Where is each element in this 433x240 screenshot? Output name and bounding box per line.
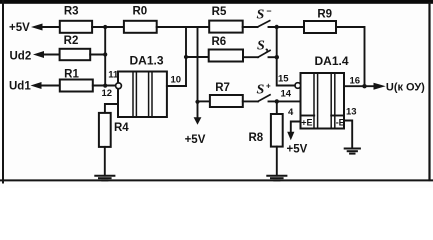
svg-text:+5V: +5V — [185, 134, 206, 146]
resistor R7 — [210, 82, 243, 107]
resistor R6 — [209, 36, 243, 62]
wire S bus to pin 15 — [277, 27, 296, 86]
svg-text:11: 11 — [108, 69, 119, 80]
svg-text:R0: R0 — [132, 6, 147, 18]
junction dot A3 — [103, 84, 107, 88]
ground under R8 — [267, 176, 286, 181]
pin 15 bubble — [295, 83, 301, 89]
wire pin 4 to +5V arrow — [291, 122, 301, 133]
wire pin 10 — [167, 85, 186, 87]
wire switch S1 to bus — [269, 56, 277, 58]
junction dot B1 — [184, 55, 188, 59]
wire R7 to switch — [243, 100, 258, 102]
wire middle vertical v2 — [197, 27, 199, 118]
wire to R8 — [276, 101, 278, 114]
power arrow +5V middle — [185, 117, 206, 146]
pin 11 bubble — [116, 83, 122, 89]
resistor R9 — [304, 8, 336, 33]
frame — [0, 0, 433, 4]
svg-text:DA1.3: DA1.3 — [129, 54, 163, 68]
wire Ud2 to R2 — [43, 54, 60, 56]
svg-text:4: 4 — [288, 107, 294, 118]
svg-text:12: 12 — [102, 88, 113, 99]
wire switch S- to R9 — [269, 26, 305, 28]
wire middle vertical v1 — [185, 27, 187, 86]
junction dot C2 — [275, 55, 279, 59]
svg-text:U(к ОУ): U(к ОУ) — [386, 82, 425, 94]
wire pin 12 — [105, 104, 118, 113]
svg-text:-E: -E — [336, 118, 345, 128]
svg-text:+5V: +5V — [287, 144, 308, 156]
svg-text:R9: R9 — [317, 8, 332, 20]
wire R4 to ground — [104, 147, 106, 176]
node Ud2 input — [10, 50, 45, 62]
svg-text:13: 13 — [346, 106, 357, 117]
switch S- label — [257, 6, 272, 23]
wire R9 to output node — [336, 27, 365, 86]
wire to R7 — [198, 100, 211, 102]
ground under R4 — [95, 176, 114, 181]
svg-text:S: S — [257, 7, 265, 22]
svg-text:Ud1: Ud1 — [9, 81, 31, 93]
svg-text:10: 10 — [171, 75, 182, 86]
wire +5V to R3 — [43, 26, 60, 28]
svg-text:16: 16 — [350, 75, 361, 86]
svg-text:+E: +E — [301, 118, 312, 128]
svg-text:R6: R6 — [211, 36, 226, 48]
wire pin 13 to ground — [344, 121, 352, 149]
wire R2 to bus — [90, 54, 105, 56]
resistor R5 — [209, 6, 243, 33]
ground under pin 13 — [345, 149, 360, 154]
svg-text:+: + — [266, 82, 271, 91]
junction dot B2 — [195, 100, 199, 104]
wire Ud1 to R1 — [41, 85, 60, 87]
wire switch S+ to pin 14 — [269, 100, 301, 102]
svg-text:R8: R8 — [249, 132, 264, 144]
wire R5 to switch — [243, 26, 258, 28]
svg-text:R5: R5 — [212, 6, 227, 18]
svg-text:R4: R4 — [114, 122, 129, 134]
svg-text:DA1.4: DA1.4 — [314, 54, 348, 68]
svg-text:–: – — [267, 6, 272, 16]
switch S1 label — [257, 39, 269, 55]
resistor R3 — [60, 6, 92, 33]
svg-text:14: 14 — [281, 89, 292, 100]
svg-text:S: S — [257, 82, 265, 97]
node +5V left input — [9, 22, 43, 34]
junction dot C1 — [275, 25, 279, 29]
op-amp DA1.4 — [301, 54, 349, 129]
junction dot C3 — [275, 99, 279, 103]
wire pin 16 output — [344, 85, 375, 87]
switch S+ label — [257, 82, 272, 98]
svg-text:15: 15 — [278, 74, 289, 85]
switch S+ blade — [258, 95, 270, 102]
resistor R4 — [99, 113, 129, 147]
wire left bus vertical — [104, 27, 106, 86]
junction dot A2 — [103, 52, 107, 56]
wire R3 to bus and R0 — [92, 26, 124, 28]
svg-text:R2: R2 — [64, 35, 79, 47]
resistor R8 — [249, 114, 283, 147]
resistor R2 — [60, 35, 91, 60]
resistor R1 — [60, 68, 93, 91]
power arrow +5V pin4 — [287, 132, 308, 156]
junction dot A1 — [103, 25, 107, 29]
switch S1 blade — [258, 50, 270, 57]
svg-text:+5V: +5V — [9, 22, 30, 34]
resistor R0 — [124, 6, 157, 33]
svg-text:Ud2: Ud2 — [10, 50, 32, 62]
svg-text:S: S — [257, 39, 265, 54]
svg-text:,: , — [265, 40, 269, 55]
svg-text:R7: R7 — [215, 82, 230, 94]
wire R8 to ground — [276, 147, 278, 176]
node Ud1 input — [9, 81, 42, 93]
wire R0 to R5 — [157, 26, 210, 28]
svg-text:R3: R3 — [64, 6, 79, 18]
node U output arrow — [374, 82, 426, 94]
wire R6 to switch — [243, 56, 258, 58]
op-amp DA1.3 — [118, 54, 167, 118]
switch S- blade — [258, 21, 270, 27]
wire to R6 — [186, 56, 209, 58]
junction dot D1 — [362, 84, 366, 88]
wire R1 to pin 11 — [93, 85, 116, 87]
